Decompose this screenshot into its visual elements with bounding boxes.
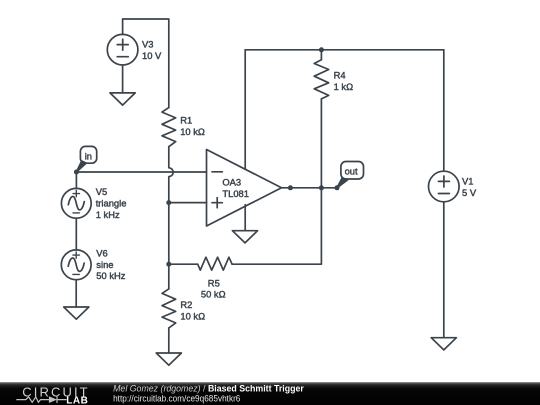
svg-text:V3: V3 xyxy=(142,39,153,50)
svg-text:10 kΩ: 10 kΩ xyxy=(180,311,205,322)
voltage source V5 (triangle 1 kHz) xyxy=(61,188,91,218)
svg-text:R1: R1 xyxy=(180,115,192,126)
svg-text:V6: V6 xyxy=(96,247,107,258)
svg-text:Mel Gomez (rdgomez) / Biased S: Mel Gomez (rdgomez) / Biased Schmitt Tri… xyxy=(113,384,304,394)
ground below V1 xyxy=(431,338,456,350)
svg-text:TL081: TL081 xyxy=(222,188,249,199)
junction dot R4 top xyxy=(319,47,324,52)
svg-text:50 kHz: 50 kHz xyxy=(96,270,125,281)
svg-text:10 V: 10 V xyxy=(142,50,162,61)
wire R1 down with hop over input wire xyxy=(169,147,173,203)
svg-text:V5: V5 xyxy=(96,186,107,197)
node flag "out" xyxy=(341,162,364,180)
junction dot R5 left xyxy=(166,262,171,267)
resistor R1 xyxy=(162,108,176,147)
svg-text:R2: R2 xyxy=(180,299,192,310)
voltage source V1 xyxy=(429,171,460,202)
op-amp OA3 triangle xyxy=(207,150,282,227)
svg-text:R4: R4 xyxy=(334,70,346,81)
resistor R4 xyxy=(314,60,329,99)
ground below V3 xyxy=(110,93,135,105)
wire to op-amp plus input xyxy=(169,202,207,204)
wire V3 top to R1 column xyxy=(123,19,169,108)
junction dot plus input xyxy=(166,200,171,205)
top supply wire xyxy=(245,49,444,51)
svg-text:50 kΩ: 50 kΩ xyxy=(201,289,226,300)
wire V1 top xyxy=(443,50,445,171)
svg-text:triangle: triangle xyxy=(96,197,127,208)
node flag "in" xyxy=(80,146,96,163)
wire down to R5 junction and R2 xyxy=(168,203,170,289)
svg-text:10 kΩ: 10 kΩ xyxy=(180,126,205,137)
junction dot feedback column xyxy=(319,185,324,190)
op-amp plus mark xyxy=(212,198,222,208)
svg-text:R5: R5 xyxy=(208,277,220,288)
junction dot op-amp output xyxy=(288,185,293,190)
ground below V6 xyxy=(64,307,89,319)
svg-text:LAB: LAB xyxy=(66,395,88,405)
ground below R2 xyxy=(156,353,181,365)
svg-text:1 kHz: 1 kHz xyxy=(96,209,120,220)
circuitlab logo: diode xyxy=(49,396,57,403)
wire R2 to ground xyxy=(168,328,170,353)
wire in node down to V5 xyxy=(75,172,77,188)
resistor R2 xyxy=(162,289,176,328)
wire R5 right to feedback column xyxy=(232,99,321,264)
svg-text:in: in xyxy=(85,150,92,161)
op-amp ground pin xyxy=(244,205,246,231)
wire V3 bottom to ground xyxy=(122,65,124,93)
junction dot out flag xyxy=(335,185,340,190)
output wire xyxy=(282,187,338,189)
svg-text:out: out xyxy=(345,165,358,176)
resistor R5 (horizontal) xyxy=(198,257,232,270)
op-amp power pin wire up xyxy=(244,50,246,169)
voltage source V6 (sine 50 kHz) xyxy=(61,250,91,280)
wire R4 top lead xyxy=(320,50,322,60)
wire input node to op-amp minus input xyxy=(76,171,206,173)
svg-text:5 V: 5 V xyxy=(462,187,477,198)
svg-text:http://circuitlab.com/ce9q685v: http://circuitlab.com/ce9q685vhtkr6 xyxy=(113,393,240,403)
svg-text:sine: sine xyxy=(96,259,113,270)
voltage source V3 xyxy=(107,34,138,65)
wire V5 to V6 xyxy=(75,218,77,250)
ground below op-amp xyxy=(232,231,257,243)
svg-text:V1: V1 xyxy=(462,176,473,187)
svg-text:OA3: OA3 xyxy=(222,177,241,188)
wire V1 bottom to ground xyxy=(443,202,445,338)
op-amp minus mark xyxy=(212,171,222,173)
footer bar xyxy=(0,382,540,405)
junction dot node in xyxy=(74,170,79,175)
svg-text:1 kΩ: 1 kΩ xyxy=(334,81,354,92)
wire junction to R5 xyxy=(169,263,198,265)
wire V6 to ground xyxy=(75,280,77,307)
circuitlab logo: resistor squiggle xyxy=(16,397,49,402)
